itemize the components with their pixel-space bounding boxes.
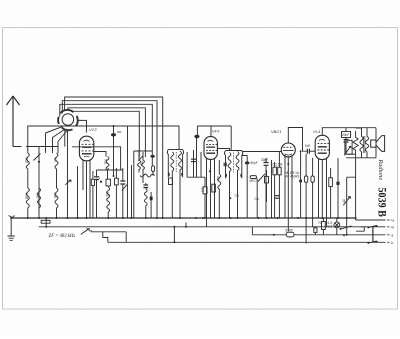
wire bbox=[242, 152, 282, 156]
main ground bus bbox=[10, 217, 356, 219]
wire VY2 cathode down bbox=[86, 161, 88, 218]
antenna coil L1 bbox=[26, 153, 29, 218]
svg-text:0,98: 0,98 bbox=[25, 193, 29, 199]
coupling cluster to VBC1 bbox=[242, 152, 283, 219]
capacitor bbox=[275, 196, 280, 199]
pot arrow bbox=[122, 185, 127, 191]
svg-text:Cg: Cg bbox=[235, 194, 239, 198]
wire loop2 bbox=[62, 101, 157, 183]
winding bbox=[228, 153, 231, 219]
node dot bbox=[38, 161, 40, 163]
wire VBC1 plate loop bbox=[288, 128, 307, 152]
core bbox=[175, 152, 177, 172]
wire column2 bbox=[38, 147, 40, 219]
capacitor bbox=[191, 159, 196, 161]
svg-text:MFC: MFC bbox=[250, 179, 258, 183]
svg-text:7,5: 7,5 bbox=[53, 158, 57, 163]
wire osc grid bbox=[134, 151, 153, 218]
wire bbox=[336, 218, 338, 235]
tube VF3 bbox=[204, 137, 217, 160]
svg-text:35: 35 bbox=[342, 199, 346, 203]
wire VL4 heater bbox=[319, 158, 327, 227]
svg-text:VL4: VL4 bbox=[313, 129, 321, 134]
resistor small bbox=[314, 228, 317, 233]
wire switch stub bbox=[91, 230, 126, 242]
wire Ca bbox=[256, 179, 259, 219]
wire resistor column bbox=[355, 158, 357, 220]
wire gang to VY2 grid bbox=[77, 120, 86, 132]
svg-text:0,3: 0,3 bbox=[201, 188, 205, 193]
svg-text:+b: +b bbox=[391, 225, 395, 229]
wire bbox=[271, 160, 273, 218]
wire VF3 heater bbox=[207, 158, 215, 227]
capacitor cm bbox=[111, 126, 116, 176]
lamp resistor bbox=[322, 222, 326, 230]
ground symbol bbox=[8, 218, 15, 240]
wire down bbox=[179, 175, 181, 218]
trimmer arrow bbox=[34, 154, 41, 161]
wire loop4 bbox=[68, 108, 145, 157]
tube VL4 bbox=[315, 135, 329, 159]
tone box bbox=[345, 140, 352, 154]
grid cap wire bbox=[197, 126, 231, 151]
resistor box bbox=[311, 176, 314, 182]
output transformer T3 bbox=[360, 128, 369, 158]
speaker bbox=[371, 136, 385, 152]
capacitor bbox=[96, 170, 98, 218]
wire VY2 plate bbox=[72, 147, 121, 170]
coil L3 bbox=[55, 153, 58, 218]
winding bbox=[142, 152, 145, 183]
grid resistors of VL4 bbox=[285, 150, 315, 243]
wire bbox=[346, 153, 356, 155]
ganged-section loop wires (5 nested) bbox=[60, 97, 163, 183]
svg-text:VF3: VF3 bbox=[212, 129, 220, 134]
svg-text:0,2: 0,2 bbox=[140, 161, 144, 166]
svg-text:6785: 6785 bbox=[286, 229, 293, 233]
tuning gang C1 bbox=[58, 110, 78, 218]
resistor box bbox=[329, 178, 333, 187]
trimmer arrow bbox=[65, 180, 71, 185]
wire VF3 plate bbox=[217, 149, 229, 152]
resistor 6785 bbox=[273, 229, 294, 237]
resistor box 0,1M bbox=[273, 167, 277, 175]
capacitor 5nF bbox=[307, 149, 315, 154]
switch arrow bbox=[81, 229, 89, 235]
osc trimmer arrow bbox=[138, 156, 143, 161]
wire T1 top bbox=[168, 149, 182, 151]
svg-text:0,3: 0,3 bbox=[328, 225, 333, 229]
wire column5 bbox=[77, 166, 79, 218]
svg-text:5nF: 5nF bbox=[305, 144, 311, 148]
winding bbox=[138, 150, 141, 173]
svg-text:980: 980 bbox=[36, 193, 40, 199]
wire stub bbox=[185, 223, 187, 227]
wires gang to left coils bbox=[46, 127, 68, 154]
IF transformer T2 bbox=[224, 151, 243, 219]
resistor box bbox=[91, 179, 94, 185]
resistor box bbox=[115, 178, 119, 185]
wire jog bbox=[103, 232, 108, 243]
terminal ticks bbox=[387, 220, 389, 242]
svg-text:552: 552 bbox=[25, 158, 29, 164]
winding bbox=[179, 151, 182, 175]
resistor box 1M bbox=[278, 167, 282, 175]
wire loop3 bbox=[60, 104, 153, 151]
core bbox=[233, 153, 235, 173]
svg-text:+a: +a bbox=[391, 219, 395, 223]
svg-text:552: 552 bbox=[104, 159, 108, 165]
antenna bbox=[7, 96, 20, 147]
IF transformer T1 bbox=[167, 150, 183, 219]
capacitor bbox=[145, 183, 147, 189]
wire VF3 cathode bbox=[210, 159, 212, 218]
wire vertical link bbox=[173, 227, 175, 243]
wire loop5 bbox=[72, 110, 140, 157]
wire VY2 heater bbox=[83, 160, 90, 218]
capacitor box bbox=[41, 220, 50, 223]
feedback column bbox=[337, 158, 339, 218]
resistor zigzag bbox=[353, 131, 358, 158]
trimmer cap bbox=[150, 197, 153, 201]
svg-text:-a: -a bbox=[391, 233, 394, 237]
resistor box bbox=[203, 187, 207, 194]
horizontal coil bbox=[140, 174, 155, 177]
capacitor 30nF bbox=[265, 158, 267, 218]
wire VBC1 down bbox=[287, 156, 289, 231]
wire VL4 cathode bbox=[321, 159, 323, 218]
resistor box bbox=[304, 176, 307, 182]
bus start tick bbox=[9, 216, 15, 219]
coil bbox=[107, 187, 110, 218]
wire antenna to coils bbox=[13, 146, 58, 148]
capacitor bbox=[122, 168, 124, 218]
heater bus bbox=[39, 218, 386, 227]
svg-text:Ca: Ca bbox=[255, 197, 259, 201]
svg-text:cm: cm bbox=[117, 130, 122, 134]
wire bbox=[131, 165, 133, 218]
svg-text:5,6: 5,6 bbox=[105, 192, 109, 197]
wire loop1 bbox=[65, 97, 163, 131]
coil bbox=[218, 174, 221, 218]
top rail bbox=[28, 126, 179, 153]
tube VBC1 bbox=[281, 143, 295, 157]
power switch bbox=[341, 226, 352, 229]
wire down bbox=[171, 176, 173, 218]
wire hum column bbox=[347, 177, 356, 235]
resistor box bbox=[265, 176, 269, 183]
bus line3 bbox=[252, 227, 385, 235]
svg-text:20nF: 20nF bbox=[342, 133, 349, 137]
winding bbox=[236, 152, 239, 219]
winding bbox=[171, 152, 174, 176]
svg-text:0,1 1M: 0,1 1M bbox=[273, 163, 283, 167]
wire T2 top bbox=[226, 150, 242, 152]
wire VY2 screen bbox=[93, 152, 106, 157]
capacitor blob bbox=[150, 155, 154, 158]
svg-text:30nF: 30nF bbox=[261, 158, 268, 162]
hum arrow bbox=[343, 197, 350, 206]
svg-text:-b: -b bbox=[391, 241, 394, 245]
oscillator coil assembly bbox=[138, 131, 163, 218]
svg-text:5039 B: 5039 B bbox=[375, 188, 388, 218]
resistor horizontal bbox=[250, 176, 256, 179]
svg-text:4F 40(40): 4F 40(40) bbox=[286, 175, 300, 179]
coil bbox=[144, 189, 147, 218]
pilot lamp bbox=[328, 221, 340, 229]
junction dots on bus bbox=[27, 125, 357, 236]
trimmer square bbox=[299, 180, 302, 183]
tone arrow bbox=[344, 146, 351, 155]
svg-text:ZF = 483 kHz: ZF = 483 kHz bbox=[49, 234, 76, 239]
switch assembly bbox=[356, 225, 378, 244]
wire output loop bbox=[346, 128, 376, 158]
terminal line 1 bbox=[356, 219, 386, 221]
coil L2 bbox=[38, 188, 41, 212]
wire bbox=[156, 183, 158, 218]
bus line4 bbox=[108, 241, 386, 243]
capacitor bbox=[194, 126, 199, 177]
pot arrow bbox=[258, 174, 265, 182]
padder capacitor bbox=[152, 166, 155, 172]
svg-text:VY2: VY2 bbox=[89, 127, 97, 132]
resistor box bbox=[169, 178, 173, 185]
capacitor 20nF bbox=[342, 128, 351, 155]
screen network wires bbox=[187, 150, 201, 177]
svg-text:VBC1: VBC1 bbox=[271, 129, 281, 134]
plate choke coil bbox=[106, 157, 109, 180]
svg-text:70: 70 bbox=[318, 221, 322, 225]
capacitor row left cluster bbox=[94, 126, 132, 218]
resistor box bbox=[106, 179, 110, 186]
wire VL4 plate up bbox=[322, 128, 376, 136]
wire bbox=[127, 126, 129, 218]
tube VY2 bbox=[79, 136, 94, 161]
svg-text:50pF: 50pF bbox=[251, 161, 258, 165]
gang bottom leads bbox=[65, 130, 68, 219]
resistor box bbox=[212, 184, 216, 192]
wire bbox=[162, 131, 164, 218]
wire bbox=[97, 168, 123, 170]
capacitor 50pF bbox=[246, 156, 248, 219]
capacitor bars bbox=[224, 163, 226, 167]
svg-text:Radione: Radione bbox=[377, 159, 384, 181]
